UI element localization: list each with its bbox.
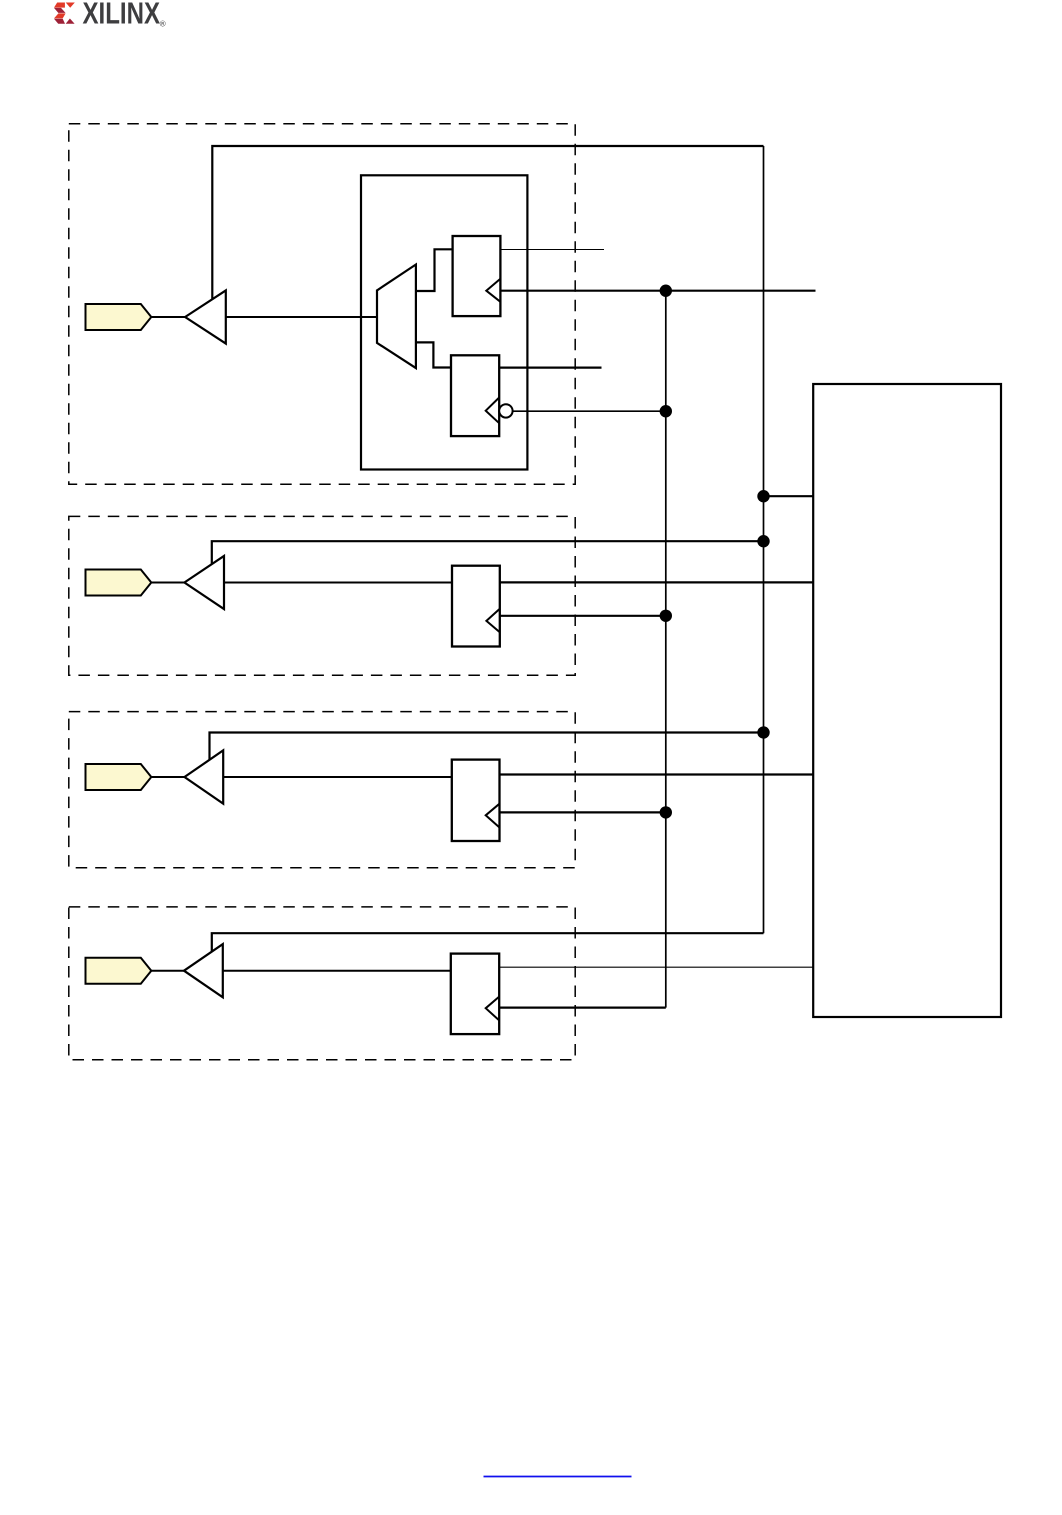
svg-text:XILINX: XILINX	[83, 0, 161, 30]
svg-text:®: ®	[160, 20, 166, 29]
